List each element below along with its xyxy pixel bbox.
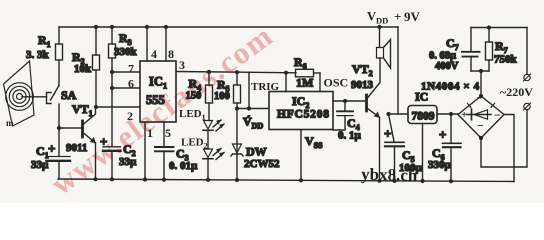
transistor VT1 9011 (66, 102, 96, 179)
wire C7 R7 junction to bridge top (471, 70, 489, 72)
resistor R7 (486, 25, 518, 71)
wire AC top (471, 27, 527, 29)
node C6 on bus (449, 179, 453, 183)
pin 5 wire (163, 122, 165, 147)
op-amp U2 IC2 HFC5208 box (269, 92, 333, 130)
svg-text:330µ: 330µ (428, 159, 452, 171)
resistor R6 (294, 55, 320, 90)
svg-text:2CW52: 2CW52 (244, 158, 280, 170)
svg-text:2: 2 (127, 109, 133, 123)
wire pin7 (112, 71, 140, 73)
node VDD prime (237, 109, 269, 131)
wire top +9V rail (59, 26, 398, 28)
svg-text:+: + (100, 134, 107, 149)
LED1 (179, 108, 224, 149)
capacitor C7 (429, 28, 480, 73)
wire OSC pin (319, 73, 321, 92)
resistor R3 (109, 27, 138, 147)
svg-text:R3: R3 (119, 31, 132, 47)
svg-text:3: 3 (179, 58, 185, 72)
resistor R1 (26, 27, 63, 86)
op-amp U1 IC1 555 box (140, 61, 176, 122)
svg-text:7809: 7809 (412, 111, 435, 123)
node C3 on bus (162, 178, 166, 182)
node TRIG pin (284, 71, 288, 75)
resistor R2 (72, 27, 100, 107)
wire IC2 output to VT2 base (333, 100, 365, 102)
node R3 top (110, 25, 114, 29)
svg-text:ybx8.ch: ybx8.ch (361, 165, 418, 185)
microphone m (4, 61, 47, 128)
zener diode DW 2CW52 (231, 106, 280, 182)
svg-text:555: 555 (146, 93, 165, 107)
pin 8 (165, 27, 167, 61)
svg-text:1M: 1M (296, 76, 313, 90)
svg-text:9011: 9011 (66, 142, 87, 154)
svg-text:C1: C1 (36, 144, 49, 160)
bridge rectifier 1N4004 x4 (421, 81, 504, 141)
svg-text:9013: 9013 (351, 79, 374, 91)
node LED2 on bus (206, 178, 210, 182)
svg-text:33µ: 33µ (119, 156, 137, 168)
node R2 top (94, 25, 98, 29)
svg-text:+: + (461, 109, 467, 121)
capacitor C1 (31, 128, 70, 179)
svg-text:LED1: LED1 (179, 108, 206, 122)
LED2 (181, 137, 224, 180)
svg-text:3. 3k: 3. 3k (26, 49, 50, 61)
svg-text:OSC: OSC (324, 76, 349, 90)
resistor R5 (214, 70, 241, 108)
svg-text:7: 7 (128, 62, 134, 76)
transistor VT2 9013 (351, 58, 380, 181)
regulator IC 7809 (408, 90, 437, 184)
svg-text:6: 6 (128, 77, 134, 91)
svg-text:SA: SA (61, 88, 77, 102)
node VT1 emitter on bus (93, 177, 97, 181)
wire ground bus (58, 179, 514, 182)
svg-text:VDD: VDD (367, 10, 388, 26)
svg-text:IC1: IC1 (149, 75, 167, 91)
svg-text:4: 4 (151, 47, 157, 61)
node VT1 collector (94, 105, 98, 109)
svg-text:150: 150 (186, 91, 202, 102)
svg-text:8: 8 (168, 47, 174, 61)
wire base (59, 127, 82, 129)
svg-text:R1: R1 (38, 33, 51, 49)
svg-text:5: 5 (165, 126, 171, 140)
wire pin3 (176, 72, 296, 73)
svg-text:100: 100 (214, 91, 230, 102)
pin labels IC1 (127, 47, 185, 140)
capacitor C6 (428, 112, 461, 181)
label VDD +9V (367, 9, 421, 26)
svg-text:VT2: VT2 (352, 62, 373, 78)
capacitor C5 (384, 112, 423, 181)
pin 4 (146, 27, 148, 61)
svg-text:DW: DW (246, 145, 267, 159)
wire +9V rail to regulator output (397, 27, 399, 114)
svg-text:0. 01µ: 0. 01µ (169, 160, 198, 172)
svg-text:+ 9V: + 9V (394, 9, 421, 24)
wire VSS (299, 130, 323, 183)
svg-text:~220V: ~220V (500, 85, 533, 99)
capacitor C3 (155, 147, 198, 180)
node C2 on bus (110, 177, 114, 181)
svg-text:V́DD: V́DD (243, 115, 263, 131)
watermark www.elecfans.com (45, 18, 280, 202)
svg-text:0. 68µ: 0. 68µ (429, 51, 456, 62)
svg-text:−: − (477, 119, 484, 133)
wire bridge bottom to AC terminal (481, 110, 527, 168)
resistor R4 (186, 70, 213, 121)
svg-text:−: − (494, 108, 501, 122)
AC terminal upper (524, 74, 531, 81)
svg-text:VSS: VSS (305, 134, 323, 150)
svg-text:HFC5208: HFC5208 (277, 109, 329, 121)
svg-text:+: + (439, 127, 446, 142)
node C5 on bus (392, 179, 396, 183)
svg-text:R6: R6 (294, 55, 307, 71)
svg-text:1: 1 (147, 126, 153, 140)
pin 1 wire (144, 122, 146, 180)
capacitor C4 (333, 99, 362, 142)
wire pin6 (112, 87, 140, 89)
wire regulator input (437, 113, 458, 115)
node base of VT1 (57, 126, 61, 130)
wire TRIG branch (248, 72, 250, 108)
loudspeaker (377, 25, 391, 68)
svg-text:750k: 750k (494, 54, 518, 66)
svg-text:VT1: VT1 (72, 102, 93, 118)
svg-text:+: + (48, 141, 55, 156)
svg-text:0. 1µ: 0. 1µ (338, 130, 362, 142)
svg-text:400V: 400V (435, 61, 459, 72)
svg-text:330k: 330k (114, 46, 138, 58)
svg-text:m: m (6, 118, 14, 128)
svg-text:1N4004 × 4: 1N4004 × 4 (421, 81, 480, 93)
svg-text:+: + (384, 126, 391, 141)
switch SA (47, 86, 77, 129)
wire bridge minus to bus (504, 115, 514, 182)
svg-text:33µ: 33µ (31, 159, 49, 171)
AC terminal lower (524, 103, 531, 110)
wire pin2 (96, 106, 140, 108)
capacitor C2 (100, 134, 137, 179)
svg-text:10k: 10k (74, 63, 92, 75)
node VT2 emitter on bus (377, 179, 381, 183)
